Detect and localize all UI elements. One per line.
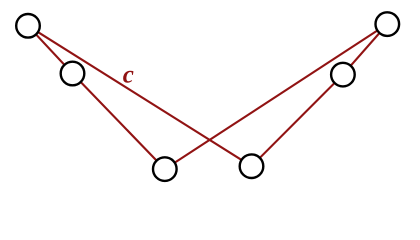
node 5 (bottom-left-mid) (153, 157, 177, 181)
node 4 (upper-right-mid) (331, 63, 355, 87)
wire edge 1-6 (28, 26, 252, 166)
node 2 (upper-left-mid) (61, 62, 85, 86)
wire edge 3-5 (165, 24, 387, 169)
svg-text:c: c (123, 61, 134, 88)
wire edge 3-4 (343, 24, 387, 75)
wire edge 2-5 (73, 74, 165, 170)
node 6 (bottom-right-mid) (240, 154, 264, 178)
wire edge 1-2 (28, 26, 73, 74)
wire edge 4-6 (252, 75, 343, 167)
node 1 (top-left) (16, 14, 40, 38)
node 3 (top-right) (376, 12, 400, 36)
